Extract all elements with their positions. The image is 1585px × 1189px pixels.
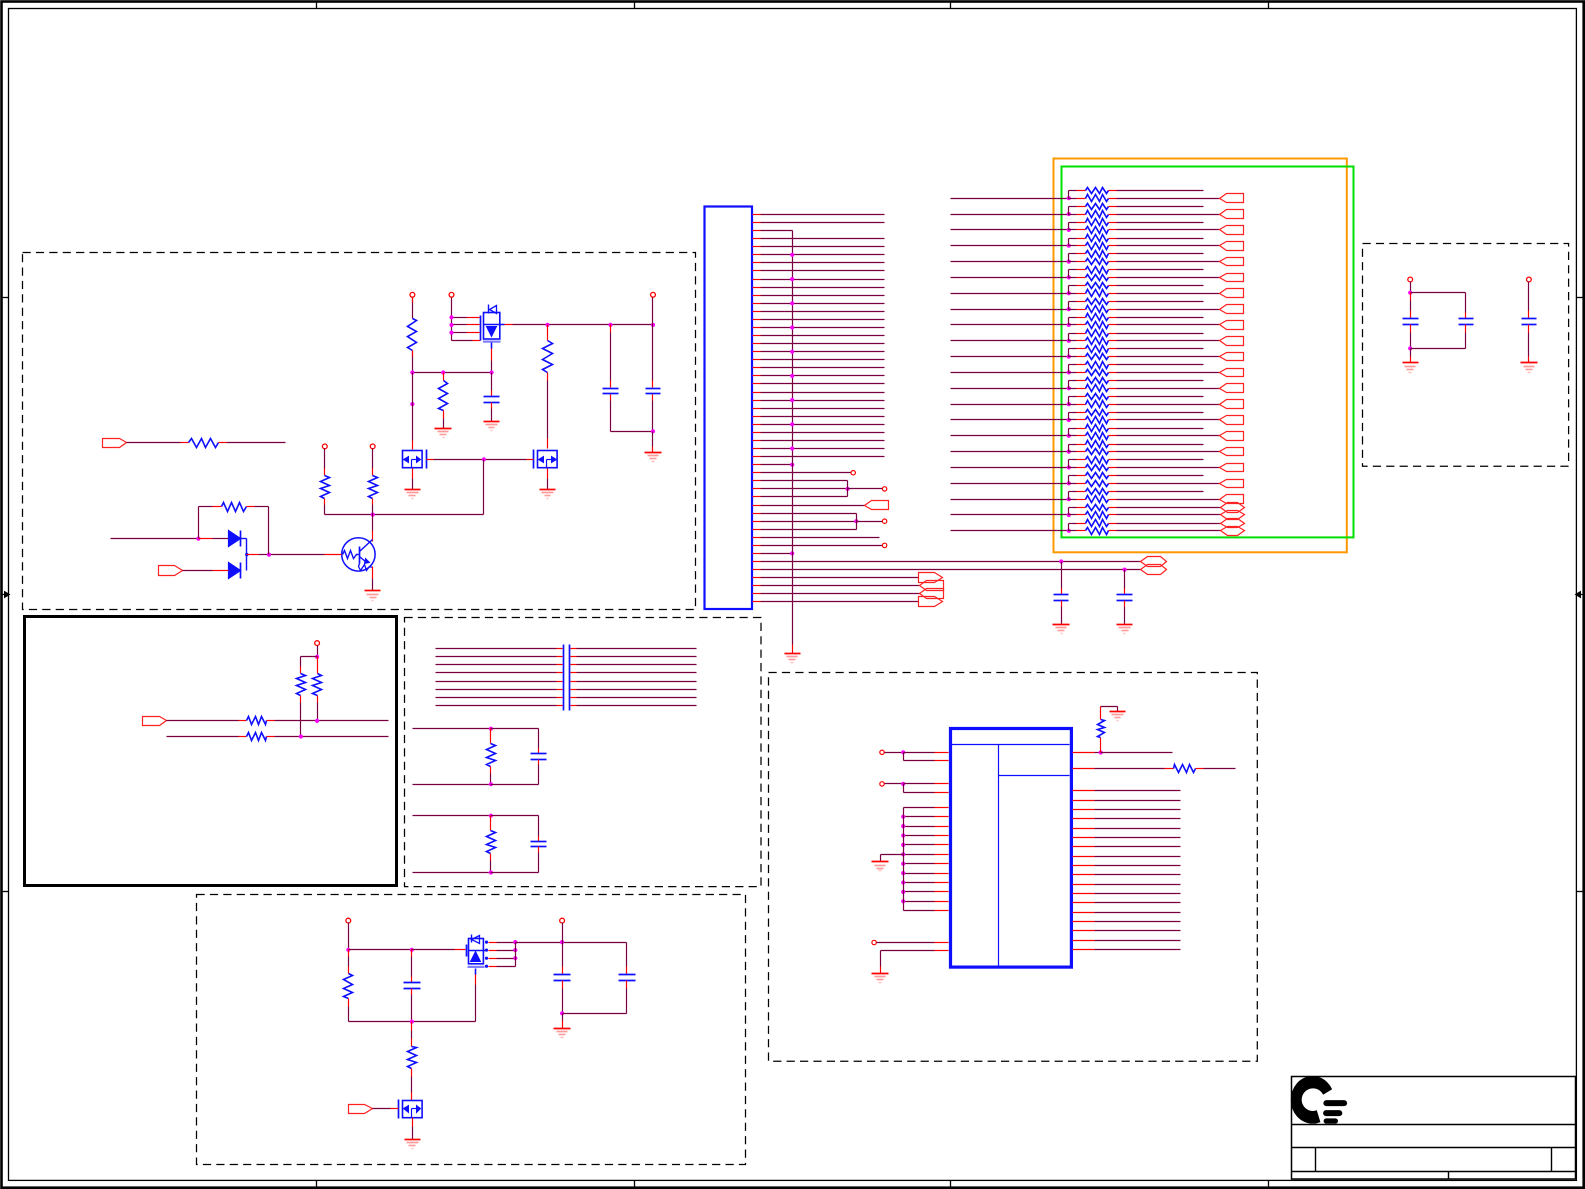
resistor R4 [372,449,374,469]
wire [349,949,412,951]
port IN2 [159,566,183,576]
wire array input 22 [951,530,1069,532]
wire stub Q4 a [485,941,488,944]
connector J1 pin 26 [753,416,761,418]
resistor RA14 [1069,293,1077,295]
connector J1 pin 18 [753,351,761,353]
logo bar 2 [1326,1110,1339,1116]
junction [651,323,655,327]
connector J1 pin 21 [753,375,761,377]
wire [373,1108,391,1110]
wire gate stub bottom [452,340,473,342]
capacitor C5 [562,943,564,967]
ground [1521,362,1538,364]
junction [196,537,200,541]
ic U1 right pin 11 [1073,865,1095,867]
resistor RA43 [1069,523,1077,525]
ground [872,861,889,863]
connector J1 pin 1 [753,214,761,216]
wire input A [111,538,199,540]
resistor RA11 [1069,269,1077,271]
wire Q4 source [475,975,477,985]
title block line 1 [1292,1124,1576,1126]
capacitor C1 [610,325,612,333]
wire [1410,282,1412,293]
junction [790,422,794,426]
resistor RA5 [1069,222,1077,224]
frame tick bottom 4 [1268,1181,1270,1189]
frame mid arrow left [1,594,6,596]
port NET48 [919,597,943,607]
wire bus vertical [792,231,794,645]
dashed region box middle (bus/RC) [405,618,762,887]
wire rc2 bottom [413,872,491,874]
connector J1 pin 7 [753,262,761,264]
port NET44 [1141,565,1167,575]
power pin P2 [449,292,454,297]
wire [483,460,485,515]
port array 20 [1220,495,1244,504]
capacitor C3 [1061,562,1063,589]
resistor RA6 [1069,229,1077,231]
junction [790,301,794,305]
capacitor C6 [626,943,628,967]
ic U1 right pin 9 [1073,846,1095,848]
wire array input 21 [951,514,1069,516]
port array up 22 [1221,519,1245,528]
mosfet Q3 n-channel [538,451,558,468]
wire [885,783,904,785]
port IN1 [103,439,127,448]
resistor RA32 [1069,435,1077,437]
port NET36 [865,501,889,510]
logo cirrus C [1291,1076,1332,1124]
wire node rail [413,372,492,374]
connector J1 pin 9 [753,279,761,281]
wire bus line 1 [436,648,557,650]
connector J1 pin 24 [753,400,761,402]
power pin P4 [322,444,327,449]
capacitor array plate B [569,645,571,711]
port NET46 [920,581,944,591]
wire [547,469,549,479]
title block divider a [1315,1148,1317,1172]
connector J1 pin 25 [753,408,761,410]
connector J1 pin 32 [753,464,761,466]
junction [790,277,794,281]
port array up 21 [1221,503,1245,513]
wire [167,720,239,722]
wire array input 12 [951,372,1069,374]
ground [540,489,556,491]
wire array input 9 [951,324,1069,326]
transistor Q6 npn digital [342,538,375,571]
wire array input 20 [951,499,1069,501]
wire gate link [427,459,434,461]
ic U1 left pin 9 [904,844,935,846]
connector J1 pin 13 [753,311,761,313]
frame tick top 4 [1268,1,1270,9]
connector J1 pin 19 [753,359,761,361]
resistor RA36 [1069,467,1077,469]
mosfet Q1 p-channel [480,316,482,341]
title block line 3 [1292,1171,1576,1173]
capacitor array plate A [563,645,565,711]
wire [1196,768,1204,770]
wire [563,1013,627,1015]
ic U1 right pin 12 [1073,874,1095,876]
resistor RA35 [1069,459,1077,461]
wire [1411,348,1466,350]
frame mid arrow right [1580,594,1585,596]
resistor R16 [490,816,492,824]
frame tick right 2 [1577,891,1585,893]
wire bus line 8 [436,705,557,707]
power pin P14 [560,918,565,923]
connector J1 pin 44 [753,561,761,563]
ic U1 right pin 1 [1073,752,1095,754]
frame tick bottom 3 [950,1181,952,1189]
resistor RA27 [1069,396,1077,398]
capacitor C1a [491,373,493,391]
wire drain rail [516,942,627,944]
resistor R12 [1174,765,1196,773]
resistor RA3 [1069,206,1077,208]
resistor RA7 [1069,238,1077,240]
ic U1 left pin 10 [904,854,935,856]
connector J1 pin 45 [753,569,761,571]
wire [317,646,319,657]
orange highlight box [1054,159,1347,553]
port NET45 [919,573,943,583]
junction [790,398,794,402]
wire array input 16 [951,435,1069,437]
junction [441,370,445,374]
wire [412,351,414,373]
junction [267,553,271,557]
junction [410,402,414,406]
junction [608,323,612,327]
connector J1 pin 30 [753,448,761,450]
wire [451,298,453,341]
port array 14 [1220,400,1244,409]
port array 7 [1220,289,1244,298]
resistor R14 [408,1047,417,1069]
connector J1 pin 12 [753,303,761,305]
resistor RA38 [1069,483,1077,485]
wire [652,298,654,325]
ic U1 right pin 7 [1073,828,1095,830]
ic U1 left pin 14 [904,891,935,893]
resistor RA39 [1069,491,1077,493]
wire bus line 2 [436,656,557,658]
ic U1 left pin 15 [904,901,935,903]
junction [371,513,375,517]
capacitor C4 [1124,570,1126,589]
frame tick top 2 [634,1,636,9]
ic U1 right pin 15 [1073,902,1095,904]
mosfet Q2 n-channel [403,451,423,468]
ic U1 body [951,729,1072,968]
power pin P13 [346,918,351,923]
resistor RA4 [1069,214,1077,216]
connector J1 pin 35 [753,488,761,490]
wire array input 18 [951,467,1069,469]
port array 3 [1220,226,1244,235]
wire [1411,292,1466,294]
junction [790,325,794,329]
wire [412,469,414,479]
wire [411,1069,413,1077]
wire drain Q1 [505,324,513,326]
junction [482,457,486,461]
diode D2 [229,563,241,579]
frame tick bottom 2 [634,1181,636,1189]
wire [412,373,414,441]
wire array input 13 [951,388,1069,390]
connector J1 pin 38 [753,513,761,515]
mosfet Q4 p-channel [466,945,468,957]
connector J1 pin 15 [753,327,761,329]
wire [562,1014,564,1021]
connector J1 pin 5 [753,246,761,248]
ic U1 left pin 16 [904,910,935,912]
wire [412,949,455,951]
connector J1 pin 6 [753,254,761,256]
resistor RA1 [1069,190,1077,192]
ground [1403,362,1419,364]
title block divider b [1551,1148,1553,1172]
resistor RA15 [1069,301,1077,303]
wire bottom rail [349,1021,476,1023]
wire bracket B [856,514,858,530]
wire [411,1022,413,1031]
wire [412,298,414,319]
resistor RA26 [1069,388,1077,390]
junction [790,446,794,450]
frame tick left 1 [1,297,9,299]
wire [903,784,905,793]
wire bus line 6 [436,689,557,691]
wire gate stub 1 [452,317,467,319]
wire stub Q4 d [485,965,488,968]
resistor RA20 [1069,340,1077,342]
ic U1 inner divider [998,745,1000,966]
resistor RA41 [1069,507,1077,509]
port array 1 [1220,194,1244,203]
power pin P1 [410,292,415,297]
connector J1 pin 16 [753,335,761,337]
wire array input 14 [951,404,1069,406]
diode D1 [229,531,241,547]
title block divider c [1448,1172,1450,1180]
ic U1 right pin 5 [1073,809,1095,811]
wire array input 8 [951,309,1069,311]
ic U1 inner line top [952,744,1070,746]
resistor RA2 [1069,198,1077,200]
resistor R11 [1100,738,1102,753]
ground [365,590,381,592]
ground [1117,624,1133,626]
wire bus line 5 [436,681,557,683]
wire [1410,349,1412,357]
wire array input 5 [951,261,1069,263]
connector J1 pin 34 [753,480,761,482]
power pin P5 [370,444,375,449]
junction [790,253,794,257]
resistor RA21 [1069,348,1077,350]
ground bus [785,653,801,655]
connector J1 pin 36 [753,496,761,498]
green highlight box [1062,167,1354,538]
resistor R17 [300,657,302,667]
wire array input 19 [951,483,1069,485]
wire [412,1118,414,1127]
junction [560,940,564,944]
junction [1123,568,1127,572]
junction [790,350,794,354]
ground [1053,624,1070,626]
ground [405,1139,421,1141]
capacitor C9 [538,816,540,837]
junction [490,370,494,374]
capacitor C7 [411,950,413,957]
frame tick top 3 [950,1,952,9]
resistor RA19 [1069,333,1077,335]
capacitor C2 [652,325,654,381]
connector J1 pin 11 [753,295,761,297]
wire [885,752,904,754]
connector J1 pin 39 [753,521,761,523]
resistor RA24 [1069,372,1077,374]
resistor RA10 [1069,261,1077,263]
wire collector [372,515,374,531]
wire base [269,554,325,556]
ic U1 left pin 7 [904,826,935,828]
ic U1 left pin 6 [904,816,935,818]
resistor R2a [443,373,445,381]
port array 9 [1220,321,1244,330]
port IN3 [143,717,167,726]
junction [545,323,549,327]
ic U1 right pin 4 [1073,800,1095,802]
ground [405,489,421,491]
junction [410,1020,414,1024]
title block line 2 [1292,1147,1576,1149]
port array 12 [1220,369,1244,377]
resistor RA23 [1069,364,1077,366]
wire rc1 bottom [413,784,491,786]
junction [1059,559,1063,563]
wire [348,923,350,950]
resistor RA33 [1069,444,1077,446]
connector J1 pin 29 [753,440,761,442]
connector J1 pin 42 [753,545,761,547]
port array 11 [1220,353,1244,361]
power pin P15 [1408,277,1413,282]
wire array input 17 [951,451,1069,453]
port array 10 [1220,337,1244,346]
ic U1 right pin 18 [1073,930,1095,932]
resistor RA12 [1069,277,1077,279]
wire array input 11 [951,356,1069,358]
dashed region box upper-left [23,253,696,610]
connector J1 pin 40 [753,529,761,531]
ic U1 right pin 6 [1073,818,1095,820]
capacitor C8 [538,729,540,749]
wire [167,736,239,738]
wire [241,538,247,540]
resistor R3 [324,449,326,469]
logo bar 1 [1326,1100,1344,1106]
logo bar 3 [1326,1118,1335,1123]
connector J1 pin 8 [753,270,761,272]
wire [1101,706,1118,708]
connector J1 pin 22 [753,383,761,385]
wire rc2 top [413,815,491,817]
wire gate stub 3 [452,332,467,334]
resistor RA34 [1069,451,1077,453]
wire array input 15 [951,419,1069,421]
wire [183,570,213,572]
wire [219,442,227,444]
ground [484,421,500,423]
resistor R5 feedback [198,507,200,539]
wire rc1 top [413,728,491,730]
resistor R20 [247,733,267,741]
wire left pin bus [903,808,905,911]
wire [127,442,181,444]
connector J1 pin 49 [753,601,761,603]
resistor R18 [317,657,319,665]
wire bus line 7 [436,697,557,699]
wire array input 2 [951,214,1069,216]
wire [652,432,654,447]
resistor R6 [189,439,219,448]
port array 8 [1220,305,1244,314]
connector J1 pin 46 [753,577,761,579]
connector J1 pin 2 [753,222,761,224]
ic U1 left pin 13 [904,882,935,884]
resistor RA31 [1069,428,1077,430]
power pin P10 [880,750,884,754]
wire bracket A [847,481,849,497]
ground [872,973,889,975]
resistor RA28 [1069,404,1077,406]
resistor RA8 [1069,245,1077,247]
wire [199,538,213,540]
port array 6 [1220,274,1244,282]
ground [645,452,662,454]
port array 13 [1220,384,1244,393]
wire array input 3 [951,229,1069,231]
port array low 21 [1221,511,1245,520]
port NET43 [1141,557,1167,567]
wire [267,736,275,738]
power pin P3 [651,292,656,297]
ic U1 right pin 17 [1073,921,1095,923]
port array 2 [1220,210,1244,219]
connector J1 pin 3 [753,230,761,232]
wire array input 1 [951,198,1069,200]
wire array input 4 [951,245,1069,247]
wire [903,753,905,761]
wire [267,720,275,722]
resistor RA42 [1069,514,1077,516]
junction [790,374,794,378]
wire bus line 4 [436,672,557,674]
connector J1 pin 48 [753,593,761,595]
